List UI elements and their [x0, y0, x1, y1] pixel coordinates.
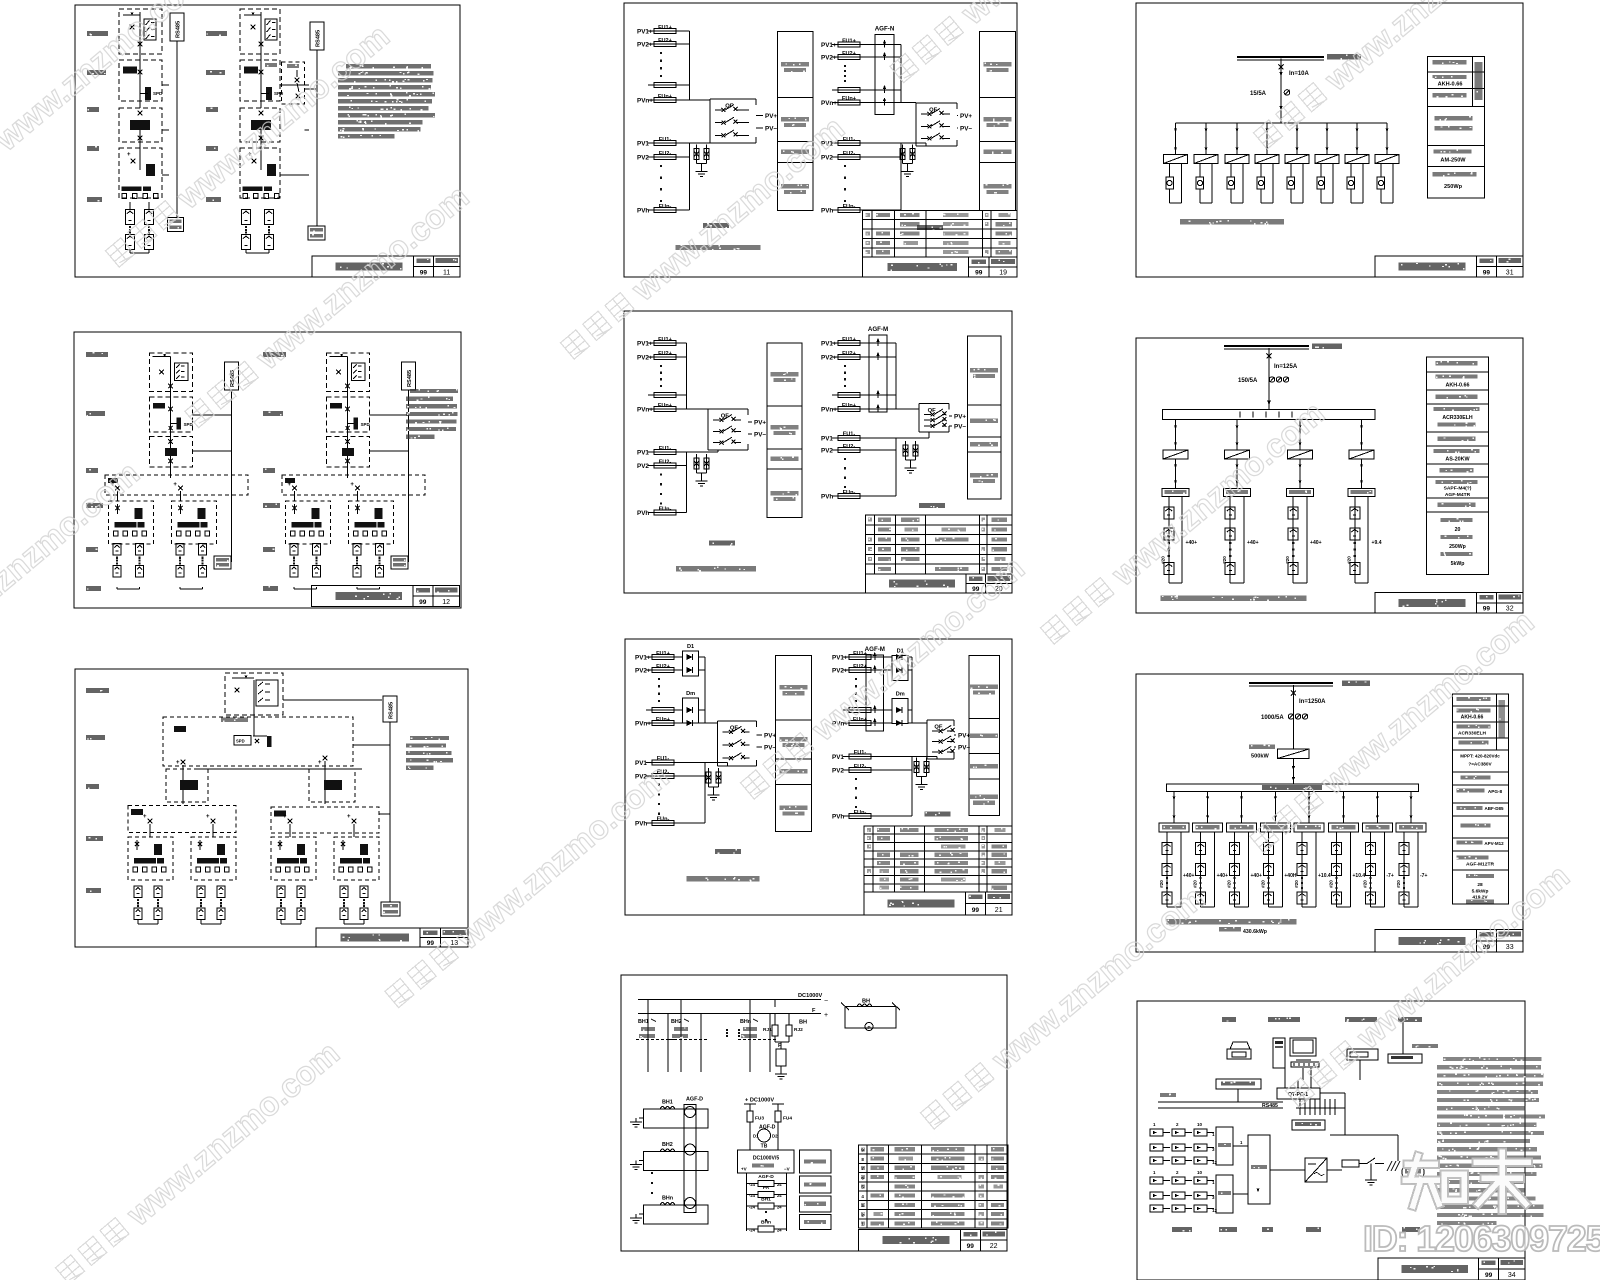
fuse FU17: [648, 394, 682, 396]
svg-text:PVn+: PVn+: [635, 721, 651, 728]
svg-text:FU2-: FU2-: [843, 444, 856, 450]
svg-text:99: 99: [427, 940, 435, 947]
svg-text:FU2-: FU2-: [659, 459, 672, 465]
PV module: [126, 210, 135, 225]
equipment table: [865, 515, 1012, 574]
svg-text:+: +: [176, 760, 180, 766]
svg-text:11: 11: [443, 269, 450, 276]
breaker QF: [709, 99, 711, 100]
fuse FU1: [648, 30, 682, 32]
panel sheet drawing sheet 33 500kW inverter AC distribution: [1136, 674, 1523, 952]
inverter: [1194, 155, 1218, 164]
svg-text:PV2+: PV2+: [635, 668, 651, 675]
title block sheet 13: [316, 928, 468, 947]
PV module: [353, 566, 361, 578]
fuse FU31: [646, 709, 680, 711]
svg-text:PV1: PV1: [821, 435, 833, 442]
wire distribution bus: [1176, 122, 1388, 124]
PV module: [1399, 864, 1409, 876]
PV module: [297, 908, 305, 920]
PV module: [1263, 892, 1273, 904]
surge protector SPD6: [914, 762, 919, 773]
svg-text:RS485: RS485: [316, 30, 322, 47]
svg-text:APV-M12: APV-M12: [1484, 841, 1504, 846]
ground: [701, 477, 703, 481]
svg-text:AS-20KW: AS-20KW: [1445, 457, 1470, 463]
ground: [701, 168, 703, 172]
svg-text:ID: 1206309725: ID: 1206309725: [1363, 1218, 1600, 1259]
PV module: [376, 544, 384, 556]
svg-text:28: 28: [1477, 882, 1483, 888]
panel sheet drawing sheet 13 inverter single-line: [75, 669, 468, 947]
svg-text:FU1-: FU1-: [659, 137, 672, 143]
svg-text:AM-250W: AM-250W: [1440, 158, 1466, 164]
inverter: [1315, 155, 1339, 164]
PV module: [340, 908, 348, 920]
panel sheet drawing sheet 31 AC feeder panel: [1136, 3, 1523, 277]
svg-text:99: 99: [1483, 606, 1491, 613]
svg-text:PV1+: PV1+: [637, 29, 653, 36]
fuse FU6: [648, 156, 682, 158]
voltmeter: [1166, 177, 1174, 189]
svg-text:FUn-: FUn-: [843, 204, 856, 210]
svg-text:RS485: RS485: [389, 702, 395, 719]
svg-text:FU2+: FU2+: [656, 664, 671, 670]
PV module: [1288, 563, 1298, 575]
breaker QF: [707, 408, 709, 410]
PV module: [1196, 843, 1206, 855]
svg-text:10: 10: [1197, 1122, 1203, 1127]
fuse FU42: [843, 815, 877, 817]
svg-text:QF: QF: [928, 408, 937, 414]
svg-text:D1: D1: [687, 644, 694, 650]
svg-text:5kWp: 5kWp: [1451, 561, 1465, 567]
PV module: [1230, 864, 1240, 876]
svg-text:FUn-: FUn-: [854, 810, 867, 816]
svg-text:FU1-: FU1-: [854, 750, 867, 756]
PV module: [1225, 528, 1235, 540]
svg-text:#20: #20: [1222, 556, 1227, 564]
fuse FU10: [832, 89, 866, 91]
svg-text:PVh: PVh: [832, 814, 844, 821]
svg-text:AKH-0.66: AKH-0.66: [1446, 383, 1470, 389]
svg-text:+40+: +40+: [1183, 873, 1194, 879]
svg-text:MPPT: 420-820Vdc: MPPT: 420-820Vdc: [1460, 754, 1500, 759]
svg-text:#20: #20: [1396, 880, 1401, 888]
PV module: [199, 566, 207, 578]
svg-text:AGF-M4TR: AGF-M4TR: [1445, 492, 1471, 498]
fuse FU3: [648, 84, 682, 86]
svg-text:In=10A: In=10A: [1289, 71, 1310, 77]
svg-text:1000/5A: 1000/5A: [1261, 715, 1284, 721]
svg-text:99: 99: [419, 599, 427, 606]
PV module: [1230, 843, 1240, 855]
fuse FU20: [648, 465, 682, 467]
svg-text:SPD: SPD: [236, 739, 245, 744]
inverter: [1288, 450, 1313, 459]
svg-text:99: 99: [420, 269, 428, 276]
PV module: [277, 886, 285, 898]
shunt BH: [845, 1007, 896, 1029]
svg-text:PV+: PV+: [754, 420, 766, 427]
svg-text:PVh: PVh: [637, 208, 649, 215]
svg-text:#20: #20: [1260, 880, 1265, 888]
svg-text:PV2+: PV2+: [832, 668, 848, 675]
svg-text:−: −: [824, 998, 828, 1005]
PV module: [154, 886, 162, 898]
PV module: [1230, 892, 1240, 904]
inverter: [1255, 155, 1279, 164]
PV module: [134, 886, 142, 898]
PV module: [1288, 507, 1298, 519]
svg-text:5.6kWp: 5.6kWp: [1472, 889, 1489, 895]
ground: [910, 464, 912, 468]
PV module: [197, 886, 205, 898]
voltmeter: [1257, 177, 1265, 189]
svg-text:PV1: PV1: [637, 450, 649, 457]
PV module: [1365, 843, 1375, 855]
svg-text:D1: D1: [753, 1134, 759, 1139]
svg-text:150/5A: 150/5A: [1238, 378, 1258, 384]
fuse FU21: [648, 512, 682, 514]
PV module: [297, 886, 305, 898]
svg-text:PV2+: PV2+: [821, 355, 837, 362]
PV module: [360, 908, 368, 920]
svg-text:99: 99: [975, 270, 983, 277]
svg-text:TB: TB: [761, 1144, 768, 1150]
PV module: [176, 566, 184, 578]
svg-text:+V: +V: [741, 1167, 747, 1172]
svg-text:+: +: [206, 814, 210, 820]
svg-text:FU1+: FU1+: [658, 337, 673, 343]
inverter: [1345, 155, 1369, 164]
fuse FU30: [646, 669, 680, 671]
PV module: [1399, 892, 1409, 904]
fuse FU35: [646, 822, 680, 824]
svg-text:12: 12: [1212, 1208, 1218, 1213]
PV module: [134, 908, 142, 920]
svg-text:31: 31: [1506, 269, 1514, 276]
panel sheet drawing sheet 22 DC monitoring: [621, 975, 1008, 1251]
voltmeter: [1317, 177, 1325, 189]
equipment table: [859, 1145, 1008, 1228]
svg-text:RJ2: RJ2: [794, 1027, 803, 1033]
svg-text:PV+: PV+: [764, 732, 776, 739]
fuse FU36: [843, 656, 877, 658]
fuse FU25: [832, 408, 866, 410]
title block sheet 21: [864, 892, 1012, 915]
PV module: [1365, 864, 1375, 876]
fuse FU13: [832, 156, 866, 158]
equipment table: [863, 210, 1017, 257]
svg-text:PV2+: PV2+: [637, 355, 653, 362]
PV module: [1350, 563, 1360, 575]
fuse FU22: [832, 342, 866, 344]
svg-text:RS485: RS485: [176, 21, 182, 38]
svg-text:PV2: PV2: [821, 448, 833, 455]
fuse FU8: [832, 44, 866, 46]
svg-text:FUn-: FUn-: [659, 506, 672, 512]
PV module: [217, 908, 225, 920]
inverter: [1375, 155, 1399, 164]
title block sheet 22: [859, 1230, 1007, 1252]
PV module: [1297, 864, 1307, 876]
svg-text:19: 19: [999, 270, 1007, 277]
PV module: [376, 566, 384, 578]
PV module: [1164, 528, 1174, 540]
fuse FU26: [832, 437, 866, 439]
ground: [635, 1118, 637, 1122]
svg-text:SPD: SPD: [184, 422, 193, 427]
svg-text:PV1+: PV1+: [635, 655, 651, 662]
ground: [921, 781, 923, 785]
title block sheet 33: [1375, 930, 1523, 953]
svg-text:PV1+: PV1+: [637, 341, 653, 348]
svg-text:24: 24: [777, 1182, 782, 1187]
svg-text:-24: -24: [749, 1193, 756, 1198]
svg-text:+9.4: +9.4: [1372, 540, 1382, 546]
svg-text:FU1+: FU1+: [658, 25, 673, 31]
svg-text:PV−: PV−: [764, 744, 776, 751]
breaker QF: [915, 101, 917, 104]
PV module: [1350, 507, 1360, 519]
svg-text:+ DC1000V: + DC1000V: [745, 1098, 774, 1104]
ground: [1370, 1176, 1372, 1180]
RS485 bus: [225, 362, 239, 390]
title block sheet 12: [312, 586, 460, 607]
svg-text:+: +: [824, 1012, 828, 1019]
svg-text:PVn+: PVn+: [821, 100, 837, 107]
PV module: [199, 544, 207, 556]
svg-text:#20: #20: [1347, 556, 1352, 564]
wire PV string bus: [704, 657, 706, 723]
PV module: [340, 886, 348, 898]
PV module: [126, 235, 135, 250]
inverter: [1164, 155, 1188, 164]
inverter: [1349, 450, 1374, 459]
svg-text:FUn+: FUn+: [842, 403, 857, 409]
svg-text:RJ1: RJ1: [763, 1027, 772, 1033]
svg-text:D2: D2: [772, 1134, 778, 1139]
inverter: [1225, 155, 1249, 164]
svg-text:BH1: BH1: [638, 1019, 649, 1025]
busbar AC bus duct: [1167, 784, 1419, 792]
svg-text:#20: #20: [1159, 880, 1164, 888]
svg-text:FUn-: FUn-: [657, 817, 670, 823]
PV module: [1196, 892, 1206, 904]
PV module: [145, 210, 154, 225]
ground: [635, 1161, 637, 1165]
inverter: [1285, 155, 1309, 164]
panel sheet drawing sheet 12 inverter single-line x2: [74, 332, 461, 608]
title block sheet 19: [863, 257, 1017, 277]
svg-text:PV2: PV2: [637, 463, 649, 470]
svg-text:FU2+: FU2+: [842, 51, 857, 57]
svg-text:-7+: -7+: [1386, 873, 1393, 879]
breaker QF: [918, 404, 920, 410]
fuse FU2: [648, 43, 682, 45]
wire PV string bus: [911, 657, 913, 723]
PV module: [136, 544, 144, 556]
voltmeter: [1347, 177, 1355, 189]
title block sheet 34: [1378, 1258, 1525, 1280]
svg-text:PV−: PV−: [765, 125, 777, 132]
voltmeter: [1196, 177, 1204, 189]
svg-text:In=125A: In=125A: [1274, 364, 1298, 370]
svg-text:FU1-: FU1-: [657, 756, 670, 762]
panel sheet drawing sheet 20 PV combiner box: [624, 311, 1012, 593]
PV module: [313, 544, 321, 556]
svg-text:+10.4: +10.4: [1353, 873, 1366, 879]
PV module: [290, 566, 298, 578]
surge protector SPD3: [694, 458, 699, 469]
svg-text:AGF-M: AGF-M: [868, 326, 888, 333]
svg-text:In=1250A: In=1250A: [1299, 699, 1326, 705]
panel sheet drawing sheet 11 inverter single-line x2: [75, 5, 460, 277]
fuse FU18: [648, 408, 682, 410]
PV module: [277, 908, 285, 920]
title block sheet 32: [1375, 593, 1523, 613]
svg-text:BHn: BHn: [740, 1019, 751, 1025]
svg-text:PV2+: PV2+: [821, 55, 837, 62]
svg-text:AGF-D: AGF-D: [758, 1174, 774, 1180]
wire PV string bus: [686, 343, 688, 409]
svg-text:24: 24: [777, 1193, 782, 1198]
fuse FU38: [843, 709, 877, 711]
svg-text:SAPF-M4(?): SAPF-M4(?): [1444, 486, 1472, 492]
svg-text:22: 22: [990, 1243, 998, 1250]
svg-text:PVh: PVh: [821, 208, 833, 215]
svg-text:BH2: BH2: [662, 1142, 673, 1148]
svg-text:FUn+: FUn+: [656, 717, 671, 723]
title block sheet 11: [312, 256, 460, 277]
svg-text:34: 34: [1508, 1272, 1516, 1279]
svg-text:+: +: [288, 482, 292, 488]
panel sheet drawing sheet 34 monitoring system: [1137, 1001, 1545, 1280]
svg-text:#20: #20: [1227, 880, 1232, 888]
svg-text:PV+: PV+: [954, 414, 966, 421]
svg-text:+: +: [318, 760, 322, 766]
PV module: [1288, 528, 1298, 540]
svg-text:PV1: PV1: [832, 754, 844, 761]
svg-text:#20: #20: [1294, 880, 1299, 888]
voltmeter: [1287, 177, 1295, 189]
svg-text:PVn+: PVn+: [821, 407, 837, 414]
PV module: [1332, 892, 1342, 904]
svg-text:13: 13: [450, 940, 458, 947]
svg-text:+: +: [283, 814, 287, 820]
fuse FU34: [646, 775, 680, 777]
svg-text:BH: BH: [799, 1020, 807, 1026]
PV module: [1365, 892, 1375, 904]
RS485 bus: [170, 13, 184, 41]
equipment table: [864, 826, 1012, 892]
PV module: [1297, 843, 1307, 855]
PV module: [1162, 843, 1172, 855]
inverter: [1225, 450, 1250, 459]
PV module: [1263, 864, 1273, 876]
PV module: [1263, 843, 1273, 855]
svg-text:PVh: PVh: [821, 494, 833, 501]
ground: [907, 168, 909, 172]
surge protector SPD5: [706, 772, 711, 783]
fuse FU40: [843, 755, 877, 757]
svg-text:−V: −V: [784, 1167, 790, 1172]
fuse FU27: [832, 449, 866, 451]
panel sheet drawing sheet 32 AC distribution 4 feeders: [1136, 338, 1523, 613]
svg-text:+: +: [173, 482, 177, 488]
svg-text:PVn+: PVn+: [637, 98, 653, 105]
PV module: [1162, 892, 1172, 904]
svg-text:FU3: FU3: [755, 1116, 764, 1122]
svg-text:+10.4: +10.4: [1318, 873, 1331, 879]
svg-text:FUn-: FUn-: [843, 490, 856, 496]
svg-text:AKH-0.66: AKH-0.66: [1438, 82, 1463, 88]
PV module: [1332, 864, 1342, 876]
svg-text:ACR330ELH: ACR330ELH: [1442, 415, 1473, 421]
wire PV string bus: [688, 31, 690, 100]
svg-text:99: 99: [1485, 1272, 1493, 1279]
RS485 bus: [402, 362, 416, 390]
fuse FU15: [648, 342, 682, 344]
inverter: [1163, 450, 1188, 459]
fuse FU39: [843, 722, 877, 724]
svg-text:+40+: +40+: [1247, 540, 1259, 546]
ground: [780, 1070, 782, 1074]
PV module: [1162, 864, 1172, 876]
title block sheet 20: [865, 574, 1012, 593]
svg-text:APG-8: APG-8: [1488, 789, 1503, 794]
PV module: [1196, 864, 1206, 876]
svg-text:BH1: BH1: [662, 1100, 673, 1106]
svg-text:+40+: +40+: [1251, 873, 1262, 879]
breaker QF: [717, 721, 719, 723]
svg-text:RS485: RS485: [407, 370, 413, 387]
fuse FU29: [646, 656, 680, 658]
svg-text:20: 20: [1455, 527, 1461, 533]
wire DC1000V rails: [638, 999, 821, 1001]
svg-text:SPD: SPD: [361, 422, 370, 427]
svg-text:FU2-: FU2-: [659, 151, 672, 157]
fuse FU32: [646, 722, 680, 724]
svg-text:SPD: SPD: [153, 91, 163, 96]
svg-text:Dm: Dm: [896, 692, 905, 698]
svg-text:33: 33: [1506, 944, 1514, 951]
PV module: [1332, 843, 1342, 855]
PV module: [113, 544, 121, 556]
voltmeter: [1377, 177, 1385, 189]
fuse FU33: [646, 761, 680, 763]
svg-text:+40+: +40+: [1217, 873, 1228, 879]
svg-text:BH2: BH2: [671, 1019, 682, 1025]
svg-text:FU2+: FU2+: [842, 351, 857, 357]
inverter: [1278, 749, 1310, 759]
svg-text:FU1-: FU1-: [843, 432, 856, 438]
PV module: [1164, 563, 1174, 575]
svg-text:PA: PA: [763, 1185, 770, 1191]
svg-text:FU2-: FU2-: [854, 764, 867, 770]
svg-text:PV1+: PV1+: [821, 341, 837, 348]
svg-text:PV−: PV−: [754, 432, 766, 439]
svg-text:24: 24: [777, 1205, 782, 1210]
RS485 bus: [383, 696, 397, 722]
svg-text:99: 99: [1483, 269, 1491, 276]
svg-text:FU2+: FU2+: [658, 351, 673, 357]
svg-text:P: P: [867, 1025, 870, 1030]
svg-text:+: +: [143, 814, 147, 820]
PV module: [360, 886, 368, 898]
svg-text:BH: BH: [862, 999, 870, 1005]
